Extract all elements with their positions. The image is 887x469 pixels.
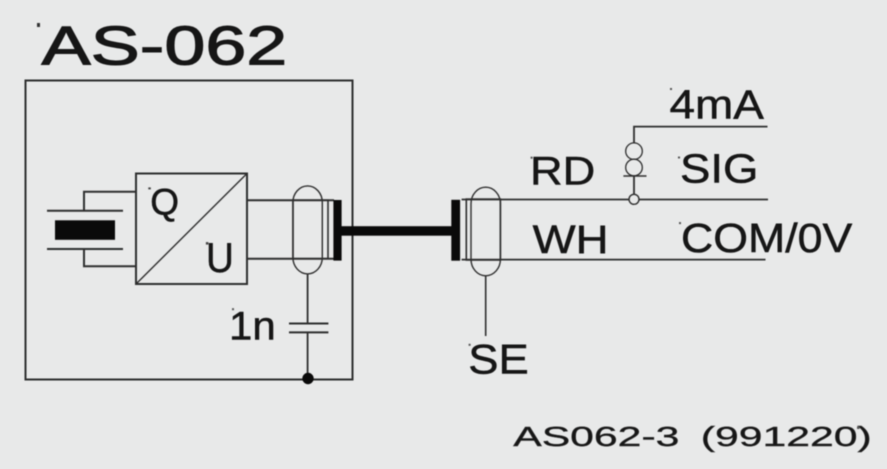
speck artifacts — [37, 23, 40, 27]
svg-text:WH: WH — [533, 218, 609, 263]
wire shield 1 to capacitor — [307, 274, 309, 324]
wire sensor bottom lead — [84, 249, 136, 266]
capacitor C1 plate top — [289, 323, 328, 325]
svg-text:AS062-3 (991220): AS062-3 (991220) — [513, 420, 872, 452]
svg-text:COM/0V: COM/0V — [681, 215, 853, 261]
cable shield 2 oval — [471, 187, 500, 276]
svg-text:SE: SE — [468, 336, 529, 383]
cable thick — [342, 226, 454, 236]
enclosure box — [26, 81, 353, 380]
piezo sensor plate top — [47, 210, 123, 212]
wire sensor top lead — [84, 192, 136, 211]
junction dot on enclosure — [302, 373, 313, 384]
svg-text:RD: RD — [530, 149, 595, 194]
current loop circle upper — [626, 143, 643, 160]
wire 4mA line — [634, 127, 768, 199]
wire RD / SIG line — [462, 199, 768, 201]
cable shield 1 rectangle — [293, 200, 328, 259]
piezo sensor element — [55, 220, 115, 240]
cable shield 1 oval — [293, 186, 322, 274]
cable shield 2 rectangle — [466, 199, 500, 260]
svg-text:1n: 1n — [229, 303, 276, 348]
wire WH / COM line — [462, 259, 766, 261]
wire shield 2 to SE — [485, 276, 487, 336]
connector bar 1 — [333, 200, 341, 261]
connector bar 2 — [451, 200, 460, 261]
op-amp U1 charge converter box — [136, 174, 247, 285]
current loop circle lower — [626, 159, 643, 176]
svg-text:SIG: SIG — [680, 146, 758, 191]
piezo sensor plate bottom — [47, 248, 123, 250]
svg-text:AS-062: AS-062 — [42, 14, 288, 76]
node on SIG line — [629, 194, 639, 204]
wire capacitor to enclosure — [307, 332, 309, 379]
wire U1 out top — [247, 199, 334, 201]
op-amp U1 diagonal — [136, 174, 247, 285]
current loop tick — [623, 175, 646, 177]
capacitor C1 plate bottom — [289, 331, 328, 333]
svg-text:Q: Q — [150, 182, 179, 223]
svg-text:4mA: 4mA — [670, 83, 764, 128]
svg-text:U: U — [206, 233, 234, 281]
wire U1 out bottom — [247, 258, 334, 260]
